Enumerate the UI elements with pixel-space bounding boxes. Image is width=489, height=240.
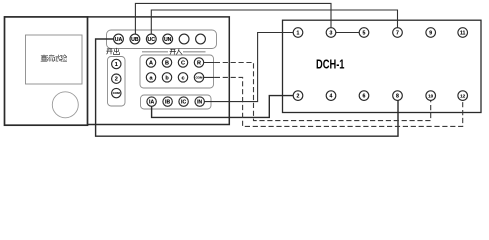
svg-text:3: 3 — [330, 30, 333, 36]
svg-text:6: 6 — [363, 94, 366, 100]
svg-text:R: R — [197, 60, 201, 66]
svg-text:4: 4 — [330, 94, 333, 100]
svg-text:IA: IA — [149, 100, 154, 106]
svg-text:2: 2 — [115, 77, 118, 83]
svg-text:UB: UB — [131, 37, 139, 43]
svg-text:UA: UA — [115, 37, 123, 43]
svg-text:B: B — [165, 60, 169, 66]
svg-text:9: 9 — [429, 30, 432, 36]
svg-text:7: 7 — [396, 30, 399, 36]
svg-text:1: 1 — [115, 62, 118, 68]
svg-text:A: A — [149, 60, 153, 66]
svg-text:IC: IC — [181, 100, 186, 106]
svg-text:12: 12 — [460, 94, 466, 99]
svg-text:c: c — [181, 75, 184, 81]
svg-text:UC: UC — [148, 37, 156, 43]
svg-text:COM: COM — [196, 76, 204, 80]
svg-text:UN: UN — [164, 37, 172, 43]
svg-text:C: C — [181, 60, 185, 66]
svg-text:COM: COM — [113, 91, 121, 95]
svg-text:10: 10 — [428, 94, 434, 99]
svg-text:1: 1 — [297, 30, 300, 36]
svg-text:2: 2 — [297, 94, 300, 100]
svg-text:DCH-1: DCH-1 — [316, 57, 345, 72]
svg-text:IB: IB — [165, 100, 170, 106]
svg-text:5: 5 — [363, 30, 366, 36]
svg-text:8: 8 — [396, 94, 399, 100]
svg-text:IN: IN — [197, 100, 202, 106]
svg-text:11: 11 — [460, 30, 466, 36]
